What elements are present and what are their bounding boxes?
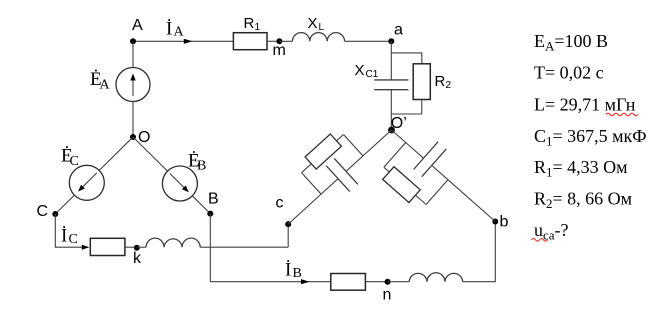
current label I_A	[166, 19, 185, 40]
wire node B down to bottom rail	[209, 214, 211, 282]
svg-text:L: L	[319, 22, 325, 33]
wire branch a to R2	[391, 53, 422, 64]
resistor R1	[233, 15, 267, 50]
value label R1	[534, 157, 628, 179]
wire resistor to node k	[125, 246, 137, 248]
label EA	[90, 69, 111, 93]
svg-text:B: B	[208, 191, 219, 208]
value label L with red spell underline	[534, 95, 638, 116]
wire XL to node a	[345, 40, 392, 42]
node A	[130, 17, 143, 44]
capacitor in branch O'-c	[326, 158, 358, 191]
svg-text:A: A	[132, 17, 143, 34]
node a	[388, 22, 403, 45]
svg-text:k: k	[133, 250, 142, 267]
svg-text:İ: İ	[166, 19, 172, 40]
wire XC1 to node O'	[390, 90, 392, 130]
node m	[273, 38, 286, 59]
wire source EB to node B	[192, 196, 210, 214]
wire rail of resistor path (b branch)	[384, 167, 426, 204]
svg-text:m: m	[273, 42, 286, 59]
value label R2	[534, 189, 632, 211]
node n	[383, 279, 392, 304]
resistor in branch O'-c	[305, 134, 341, 169]
node O'	[388, 115, 407, 133]
wire O' to branch split (toward c)	[363, 130, 392, 156]
wire R1 to node m	[267, 40, 279, 42]
source EC	[69, 165, 104, 200]
svg-text:2: 2	[446, 80, 452, 91]
wire split to capacitor (b branch)	[406, 143, 424, 159]
svg-text:A: A	[174, 24, 185, 39]
node b	[492, 213, 508, 230]
svg-text:T= 0,02 с: T= 0,02 с	[534, 63, 604, 83]
svg-text:EA​=100 В: EA​=100 В	[534, 31, 608, 53]
node c	[276, 194, 292, 227]
svg-text:X: X	[355, 62, 365, 79]
node C	[37, 203, 59, 220]
svg-text:R2​= 8, 66 Ом: R2​= 8, 66 Ом	[534, 189, 632, 211]
wire split to capacitor (c branch)	[346, 156, 363, 171]
wire O' to branch split (toward b)	[392, 130, 406, 143]
wire inductor to node b	[463, 222, 496, 282]
svg-text:L= 29,71 мГн: L= 29,71 мГн	[534, 95, 636, 115]
current arrow I_A	[184, 39, 193, 44]
inductor in phase B branch	[409, 273, 463, 282]
svg-text:R: R	[435, 73, 446, 90]
resistor in branch O'-b	[383, 167, 421, 203]
wire far rung (b branch)	[426, 180, 448, 205]
wire node A to source EA	[132, 41, 134, 67]
wire k to inductor	[137, 246, 146, 248]
node k	[133, 245, 142, 267]
wire rung near O' (c branch)	[344, 135, 364, 156]
wire capacitor to rejoin (c branch)	[321, 179, 338, 194]
wire up to node c	[287, 224, 289, 247]
wire rail of resistor path (c branch)	[302, 135, 344, 173]
wire from node A to resistor R1	[133, 40, 233, 42]
wire capacitor to rejoin (b branch)	[432, 165, 448, 179]
node O	[130, 129, 150, 146]
value label C1	[534, 126, 647, 148]
svg-text:a: a	[394, 22, 403, 39]
wire R2 back to O' branch	[391, 100, 422, 115]
wire far rung (c branch)	[302, 173, 322, 194]
wire node a down to capacitor XC1	[390, 41, 392, 80]
bottom rail wire with current I_B	[210, 281, 331, 283]
source EA	[116, 68, 150, 102]
svg-text:O’: O’	[391, 115, 407, 132]
wire node O to source EC	[99, 137, 133, 170]
svg-text:R: R	[244, 15, 255, 32]
source EB	[162, 166, 197, 201]
svg-text:c: c	[276, 194, 284, 211]
svg-text:C: C	[69, 232, 78, 247]
svg-text:uca​-?: uca​-?	[534, 220, 569, 242]
svg-text:1: 1	[255, 22, 261, 33]
svg-text:b: b	[500, 213, 509, 230]
capacitor XC1	[355, 62, 409, 90]
svg-text:C: C	[70, 154, 79, 169]
wire source EA to node O	[132, 102, 134, 138]
svg-text:İ: İ	[61, 226, 67, 247]
svg-text:C: C	[37, 203, 49, 220]
svg-text:C1: C1	[366, 69, 379, 80]
wire m to inductor XL	[279, 40, 292, 42]
wire branch to node b	[448, 180, 495, 222]
wire node O to source EB	[133, 137, 168, 171]
label EB	[188, 151, 206, 174]
svg-text:R1​= 4,33 Ом: R1​= 4,33 Ом	[534, 157, 628, 179]
value label EA=100 V	[534, 31, 608, 53]
current arrow I_B	[301, 279, 310, 284]
current label I_C	[61, 226, 78, 248]
wire source EC to node C	[55, 195, 74, 214]
svg-text:B: B	[197, 159, 206, 174]
wire n to inductor	[388, 281, 410, 283]
resistor in phase B branch	[331, 274, 366, 291]
wire node C down and right	[55, 214, 88, 247]
wire inductor to below node c	[200, 246, 288, 248]
current arrow I_C	[82, 245, 90, 250]
wire rung near O' (b branch)	[384, 143, 406, 168]
wire branch to node c	[288, 194, 321, 224]
label EC	[61, 146, 79, 170]
svg-text:İ: İ	[285, 260, 291, 281]
current label I_B	[285, 260, 302, 282]
node B	[207, 191, 218, 217]
svg-text:B: B	[293, 266, 302, 281]
inductor XL	[292, 15, 344, 41]
svg-text:A: A	[100, 78, 111, 93]
wire resistor to node n	[365, 281, 387, 283]
capacitor in branch O'-b	[414, 142, 447, 177]
resistor R2	[413, 64, 451, 100]
svg-text:n: n	[383, 287, 392, 304]
value label T	[534, 63, 604, 83]
svg-text:X: X	[308, 15, 318, 32]
svg-text:C1​= 367,5 мкФ: C1​= 367,5 мкФ	[534, 126, 647, 148]
resistor in phase C branch	[90, 238, 125, 255]
question label u_ca with red spell underline	[532, 220, 569, 242]
inductor in phase C branch	[146, 238, 200, 247]
